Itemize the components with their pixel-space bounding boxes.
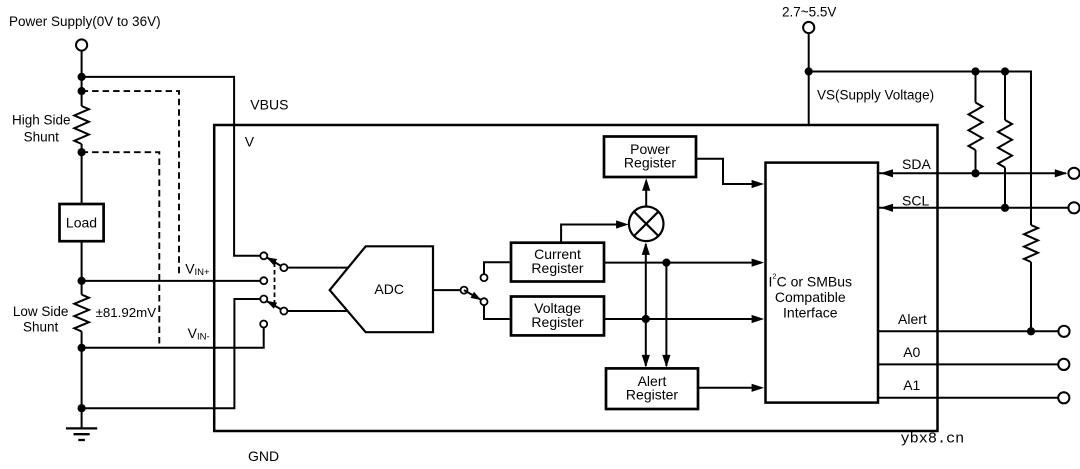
wire: load to low-side shunt (81, 241, 83, 294)
wire: A0 line (879, 363, 1058, 365)
svg-text:VS(Supply Voltage): VS(Supply Voltage) (817, 88, 934, 103)
wire: S2 to Current Register (484, 262, 510, 274)
switch S2 throw (current) (481, 274, 488, 281)
svg-text:ybx8.cn: ybx8.cn (901, 429, 965, 447)
junction: R1 to SDA (971, 169, 979, 177)
junction: R2 to SCL (1001, 204, 1009, 212)
label: Power Supply(0V to 36V) (9, 14, 161, 29)
wire: Alert Register to interface (698, 384, 764, 392)
svg-text:Load: Load (66, 215, 97, 231)
wire: supply rail top (81, 51, 83, 106)
multiplier circle (629, 207, 664, 242)
label: 2.7~5.5V (782, 5, 836, 20)
svg-text:A1: A1 (903, 377, 920, 393)
svg-text:Interface: Interface (783, 304, 838, 320)
terminal: VS supply (803, 22, 814, 33)
junction: VIN- node (78, 344, 86, 352)
block: Power Register box (604, 137, 696, 178)
svg-text:Low Side: Low Side (13, 304, 69, 319)
label: VIN+ (185, 261, 210, 279)
svg-text:Power Supply(0V to 36V): Power Supply(0V to 36V) (9, 14, 161, 29)
label: Current Register (531, 246, 583, 276)
label: VIN- (188, 325, 210, 343)
wire: shunt bottom to ground (81, 331, 83, 428)
label: VS(Supply Voltage) (817, 88, 934, 103)
wire: Current Register to interface (604, 259, 764, 267)
junction: high-side shunt bottom sense (78, 148, 86, 156)
label: interface text (769, 271, 853, 320)
block: Current Register box (511, 243, 604, 282)
junction: voltage line tap (642, 315, 650, 323)
wire: SDA line (879, 169, 1067, 177)
block: ADC (330, 246, 433, 332)
label: VBUS (250, 97, 288, 113)
wire: dashed sense link high-side bottom (82, 152, 160, 346)
switch S1b throw (GND) (260, 296, 267, 303)
resistor: SDA pull-up R1 (969, 72, 983, 174)
wire: current to multiplier (561, 220, 629, 242)
svg-text:Register: Register (626, 387, 678, 403)
wire: S1a pole to ADC (287, 267, 347, 269)
wire: VIN+ sense to switch (82, 280, 261, 282)
switch S2 throw (voltage) (481, 298, 488, 305)
label: High Side Shunt (12, 113, 71, 145)
junction: VIN+ node (78, 277, 86, 285)
label: A0 (903, 344, 920, 360)
terminal: A0 (1058, 359, 1069, 370)
wire: Alert line (879, 330, 1059, 332)
svg-text:Shunt: Shunt (24, 130, 60, 145)
wire: ADC output to switch S2 (433, 289, 460, 291)
switch S2 lever (464, 290, 481, 300)
resistor: High Side Shunt (74, 106, 89, 144)
switch S1a throw (VIN+) (260, 277, 267, 284)
block: I2C or SMBus Compatible Interface (766, 163, 879, 403)
block: Alert Register box (606, 368, 698, 409)
wire: voltage node to multiplier (up arrow) (642, 242, 650, 319)
label: Voltage Register (531, 300, 583, 330)
wire: SCL line (879, 204, 1068, 212)
watermark: ybx8.cn (901, 429, 965, 447)
wire: VS to pull-up rail (809, 72, 1031, 226)
junction: R3 to Alert (1027, 327, 1035, 335)
wire: shunt to load (81, 144, 83, 204)
label: SDA (902, 156, 931, 172)
wire: current tap down to Alert Register (662, 263, 670, 368)
wire: multiplier to Power Register (642, 178, 650, 206)
label: V (245, 134, 255, 150)
wire: Voltage Register to interface (604, 315, 764, 323)
label: Low Side Shunt (13, 304, 69, 335)
label: GND (248, 448, 279, 464)
svg-text:Register: Register (531, 260, 583, 276)
svg-text:ADC: ADC (374, 281, 404, 297)
switch S2 pole (461, 287, 468, 294)
wire: voltage tap down to Alert Register (642, 319, 650, 367)
junction: pull-up R1 top (971, 67, 979, 75)
label: Alert Register (626, 373, 678, 403)
svg-text:A0: A0 (903, 344, 920, 360)
label: plus-minus 81.92mV (96, 305, 157, 320)
switch S1a throw (VBUS) (260, 252, 267, 259)
label: SCL (902, 193, 929, 209)
wire: ground sense to switch S1b (82, 299, 260, 408)
switch S1b pole (280, 308, 287, 315)
component: Load box (60, 204, 104, 241)
svg-text:High Side: High Side (12, 113, 71, 128)
terminal: SCL (1068, 202, 1079, 213)
wire: S2 to Voltage Register (484, 305, 510, 319)
switch S1a pole (280, 264, 287, 271)
label: A1 (903, 377, 920, 393)
ground symbol (66, 428, 97, 440)
resistor: Alert pull-up R3 (1024, 225, 1038, 331)
junction: VS node (805, 67, 813, 75)
terminal: A1 (1058, 392, 1069, 403)
label: Alert (898, 311, 927, 327)
terminal: SDA (1068, 168, 1079, 179)
label: Load (66, 215, 97, 231)
svg-text:I2C or SMBus: I2C or SMBus (769, 271, 853, 289)
junction: current line tap (662, 259, 670, 267)
svg-text:±81.92mV: ±81.92mV (96, 305, 157, 320)
wire: VBUS tap to switch S1a (82, 77, 260, 256)
switch S1a lever (266, 257, 284, 267)
wire: A1 line (879, 397, 1058, 399)
svg-text:2.7~5.5V: 2.7~5.5V (782, 5, 836, 20)
svg-text:Alert: Alert (898, 311, 927, 327)
wire: VS vertical (808, 33, 810, 126)
svg-text:V: V (245, 134, 255, 150)
switch S1b spare throw (VIN-) (260, 321, 267, 328)
label: Power Register (624, 141, 676, 171)
wire: VIN- sense to switch (82, 327, 264, 347)
svg-text:GND: GND (248, 448, 279, 464)
svg-text:SDA: SDA (902, 156, 931, 172)
terminal: power supply input (76, 39, 87, 50)
terminal: Alert (1058, 326, 1069, 337)
svg-text:VBUS: VBUS (250, 97, 288, 113)
switch gang link (dashed) (274, 263, 276, 307)
wire: dashed sense link high-side top (82, 91, 179, 275)
wire: Power Register to interface (696, 159, 764, 188)
block: Voltage Register box (511, 297, 604, 336)
wire: S1b pole to ADC (287, 310, 346, 312)
svg-text:Register: Register (624, 155, 676, 171)
junction: supply to VBUS tap (78, 73, 86, 81)
switch S1b lever (266, 301, 284, 311)
junction: high-side shunt top sense (78, 87, 86, 95)
resistor: SCL pull-up R2 (998, 72, 1012, 208)
svg-text:Register: Register (531, 314, 583, 330)
label: ADC (374, 281, 404, 297)
box: IC boundary (214, 125, 937, 431)
resistor: Low Side Shunt (74, 295, 89, 332)
junction: ground sense node (78, 404, 86, 412)
svg-text:SCL: SCL (902, 193, 929, 209)
svg-text:Compatible: Compatible (775, 289, 846, 305)
svg-text:Shunt: Shunt (23, 320, 59, 335)
junction: pull-up R2 top (1001, 67, 1009, 75)
